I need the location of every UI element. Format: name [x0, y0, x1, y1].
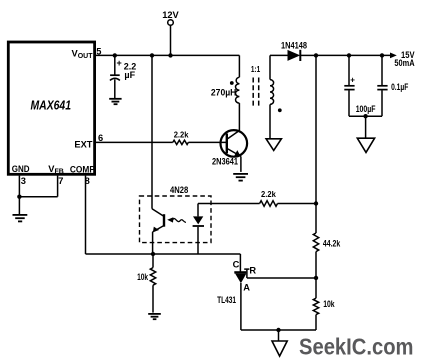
svg-text:TL431: TL431	[217, 295, 236, 305]
svg-text:C: C	[233, 260, 240, 270]
svg-text:2.2k: 2.2k	[174, 130, 189, 140]
svg-text:2.2k: 2.2k	[261, 189, 276, 199]
svg-text:+: +	[117, 58, 122, 68]
svg-text:2N3641: 2N3641	[212, 157, 238, 167]
svg-text:A: A	[243, 282, 250, 292]
svg-text:44.2k: 44.2k	[323, 238, 341, 248]
svg-text:R: R	[249, 266, 256, 276]
svg-text:COMP: COMP	[70, 164, 95, 174]
svg-text:0.1µF: 0.1µF	[391, 82, 409, 92]
svg-text:50mA: 50mA	[394, 58, 415, 68]
svg-text:4N28: 4N28	[170, 185, 188, 195]
svg-text:10k: 10k	[323, 299, 334, 309]
svg-text:270µH: 270µH	[211, 87, 237, 97]
svg-text:1:1: 1:1	[251, 64, 260, 74]
svg-text:12V: 12V	[162, 10, 179, 20]
svg-text:µF: µF	[124, 70, 135, 80]
svg-text:6: 6	[98, 133, 103, 143]
svg-text:5: 5	[96, 47, 101, 57]
svg-text:MAX641: MAX641	[31, 99, 72, 113]
svg-text:EXT: EXT	[74, 140, 92, 150]
svg-text:100µF: 100µF	[356, 104, 376, 114]
svg-text:8: 8	[85, 176, 90, 186]
svg-text:10k: 10k	[137, 272, 148, 282]
svg-text:SeekIC.com: SeekIC.com	[299, 334, 414, 360]
svg-text:3: 3	[21, 176, 26, 186]
svg-text:GND: GND	[12, 164, 30, 174]
svg-text:+: +	[350, 75, 355, 84]
svg-text:7: 7	[58, 176, 63, 186]
svg-text:1N4148: 1N4148	[281, 41, 307, 51]
